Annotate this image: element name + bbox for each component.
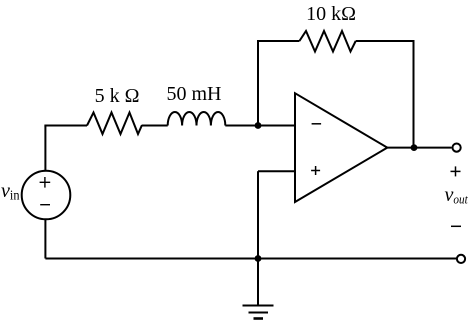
terminal: output top open circle bbox=[453, 144, 461, 152]
wire: between resistor and inductor bbox=[142, 125, 168, 127]
wire: source bottom to bottom rail bbox=[44, 219, 46, 258]
wire: op-amp output bbox=[387, 147, 451, 149]
resistor R2 10 kOhm zigzag bbox=[299, 31, 355, 52]
wire: inductor to op-amp minus input bbox=[225, 125, 295, 127]
svg-text:10 kΩ: 10 kΩ bbox=[306, 3, 356, 25]
wire: feedback left vertical bbox=[257, 41, 259, 126]
wire: plus input vertical down to ground rail bbox=[257, 171, 259, 258]
source plus sign bbox=[40, 177, 51, 188]
wire: feedback top right segment bbox=[356, 40, 415, 42]
svg-text:50 mH: 50 mH bbox=[167, 83, 222, 105]
svg-text:vin: vin bbox=[1, 180, 19, 204]
node C output junction dot bbox=[411, 144, 418, 151]
op-amp minus input sign bbox=[312, 123, 322, 125]
wire: feedback top left segment bbox=[257, 40, 299, 42]
wire: main rail left segment bbox=[44, 125, 87, 127]
resistor R1 5 kOhm zigzag bbox=[87, 113, 142, 135]
wire: feedback right vertical bbox=[413, 40, 415, 148]
svg-text:5 k Ω: 5 k Ω bbox=[95, 85, 140, 107]
wire: bottom rail bbox=[45, 258, 456, 260]
op-amp U1 triangle bbox=[295, 93, 387, 202]
inductor L1 50 mH bbox=[168, 112, 226, 126]
node B junction dot on bottom rail bbox=[255, 255, 262, 262]
wire: ground stem bbox=[257, 259, 259, 306]
voltage source Vin circle bbox=[22, 171, 71, 220]
wire: left vertical from main rail to source top bbox=[44, 126, 46, 172]
node A junction dot bbox=[255, 122, 262, 129]
source minus sign bbox=[40, 204, 50, 206]
terminal: output bottom open circle bbox=[457, 255, 465, 263]
svg-text:vout: vout bbox=[445, 184, 469, 207]
ground symbol bars bbox=[243, 305, 274, 307]
op-amp plus input sign bbox=[311, 166, 320, 175]
vout minus sign bbox=[451, 225, 461, 227]
wire: plus input horizontal bbox=[258, 170, 295, 172]
vout plus sign bbox=[451, 166, 461, 176]
